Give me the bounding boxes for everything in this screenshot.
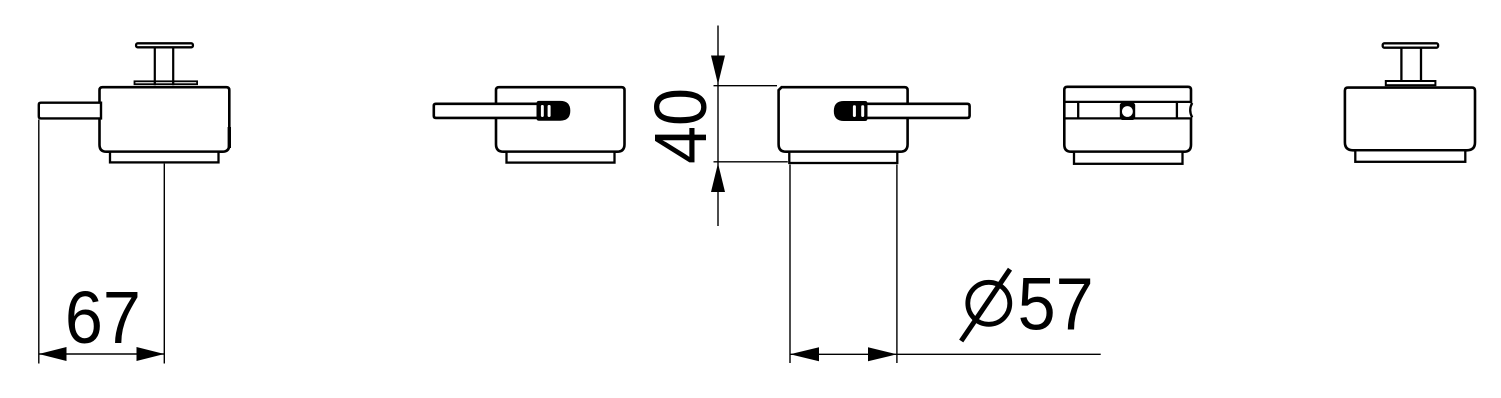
svg-text:67: 67 [65,276,141,359]
svg-text:40: 40 [639,88,722,164]
svg-text:57: 57 [1018,263,1094,346]
